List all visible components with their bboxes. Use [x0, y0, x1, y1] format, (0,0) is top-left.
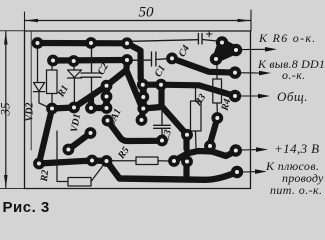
- wire: bottom-left horizontal trace: [39, 161, 107, 164]
- pad mid74: [68, 102, 80, 114]
- arrow obsh: [241, 94, 270, 99]
- wire: pad90 diagonal to pad68: [68, 133, 90, 150]
- arrow K plusov: [243, 169, 267, 174]
- pad diag187: [181, 129, 193, 141]
- svg-text:VD2: VD2: [25, 103, 36, 122]
- svg-text:+14,3 В: +14,3 В: [274, 141, 320, 156]
- resistor R3: [191, 87, 202, 148]
- dimension extension line top-right: [250, 10, 252, 31]
- arrow K R6: [241, 47, 277, 52]
- pad obsh-end: [229, 90, 241, 102]
- pad +14.3V: [230, 144, 242, 156]
- wire: Y left arm to DA1 pad: [107, 70, 127, 86]
- capacitor C4: [131, 34, 217, 45]
- pad DA1-R3: [137, 103, 149, 115]
- pad bus-186: [181, 156, 193, 168]
- wire: long diagonal pad52 to pad39: [39, 109, 52, 164]
- capacitor C3: [154, 104, 171, 136]
- svg-text:35: 35: [0, 102, 13, 117]
- svg-text:R2: R2: [39, 169, 51, 183]
- resistor R4: [213, 64, 222, 113]
- pad DA1-L3: [101, 102, 113, 114]
- dimension extension line top-left: [24, 12, 26, 31]
- wire: right pad column bar: [140, 86, 147, 109]
- svg-text:Рис. 3: Рис. 3: [3, 199, 50, 215]
- diode VD1: [68, 66, 82, 104]
- pad wire-68: [63, 144, 75, 156]
- pad R4-bottom: [211, 112, 223, 124]
- pad cluster-1: [216, 36, 228, 48]
- pad mid52: [46, 103, 58, 115]
- svg-text:Общ.: Общ.: [277, 89, 308, 104]
- wire: pad91 to pad106: [91, 105, 107, 111]
- pad obsh-start: [155, 79, 167, 91]
- pad D-right-top: [137, 79, 149, 91]
- diode VD2: [34, 48, 51, 108]
- capacitor C1: [128, 52, 167, 66]
- dimension arrowhead right: [238, 19, 251, 23]
- pad A1: [32, 37, 44, 49]
- wire: pad52 to pad74: [52, 108, 74, 109]
- dimension arrowhead up: [4, 31, 8, 44]
- wire: drop to pad91: [88, 97, 94, 108]
- capacitor C2: [81, 48, 101, 94]
- pad DA1-L1: [101, 80, 113, 92]
- wire: pad161 down diagonal to pad187: [162, 86, 188, 135]
- pad bottom-106: [101, 155, 113, 167]
- pad DA1-R2: [137, 91, 149, 103]
- pad bottom-92: [86, 155, 98, 167]
- arrow K vyv8: [240, 71, 271, 76]
- wire: left pad column bar: [103, 85, 110, 109]
- pad A3: [121, 37, 133, 49]
- wire: swoosh1 to +14.3V pad: [174, 151, 236, 161]
- wire: top row trace: [38, 40, 128, 46]
- wire: bottom bus to K plusov pad: [107, 161, 238, 180]
- board outline: [25, 31, 251, 189]
- pad K plusov: [231, 166, 243, 178]
- pad B2: [68, 55, 80, 67]
- pad swoosh-left: [168, 155, 180, 167]
- wire: diagonal pad74 to pad107: [74, 86, 107, 108]
- dimension line 35: [5, 32, 7, 189]
- pad DA1-L4: [102, 115, 114, 127]
- wire: row2 trace: [53, 57, 127, 64]
- dimension extension line left-bottom: [0, 188, 25, 190]
- pad diag-end: [136, 114, 148, 126]
- pad DA1-L2: [101, 91, 113, 103]
- pad C3-bottom: [156, 135, 168, 147]
- svg-text:пит. о.-к.: пит. о.-к.: [270, 183, 322, 197]
- resistor R1: [47, 65, 58, 104]
- wire: pad143 to junction161 horizontal: [143, 107, 161, 109]
- resistor R5: [112, 157, 169, 165]
- wire: Obsh trace to right edge: [161, 85, 235, 96]
- pad A2: [85, 37, 97, 49]
- pad K vyv8: [229, 66, 241, 78]
- inner margin line: [30, 32, 32, 151]
- wire: top-right bend down to pad col: [127, 43, 143, 84]
- svg-text:К R6 о-к.: К R6 о-к.: [258, 31, 317, 45]
- wire: pad143 to pad161: [143, 82, 161, 88]
- svg-text:о.-к.: о.-к.: [282, 68, 306, 82]
- resistor R2: [57, 131, 106, 186]
- dimension arrowhead down: [4, 175, 8, 188]
- pad C1-right: [166, 53, 178, 65]
- arrow +14.3V: [241, 147, 268, 152]
- pad cluster-3: [210, 53, 222, 65]
- wire: pad187 drop to swoosh: [183, 135, 189, 149]
- wire: pad120 curve to C3 pad: [108, 121, 163, 142]
- wire: Y stem: [123, 60, 130, 71]
- polarity plus C4: [207, 31, 213, 36]
- wire: pad186 drop to bus: [183, 162, 189, 180]
- pad B1: [47, 55, 59, 67]
- wire: pad172 diagonal to K vyv pad: [172, 58, 235, 72]
- pad swoosh-junction: [204, 140, 216, 152]
- dimension arrowhead left: [25, 19, 38, 23]
- svg-text:50: 50: [139, 5, 155, 21]
- pad wire-90: [85, 127, 97, 139]
- wire: triangle cluster top-right: [216, 43, 236, 60]
- pad mid91: [85, 102, 97, 114]
- pad B3: [121, 54, 133, 66]
- pad cluster-2 K R6: [230, 44, 242, 56]
- pad bottom-left: [33, 158, 45, 170]
- wire: Y right arm big diagonal: [126, 70, 143, 120]
- pads group: [32, 36, 244, 178]
- wire: pad217 diagonal down: [210, 118, 217, 144]
- dimension line 50: [25, 20, 251, 22]
- dimension extension line left-top: [0, 30, 25, 32]
